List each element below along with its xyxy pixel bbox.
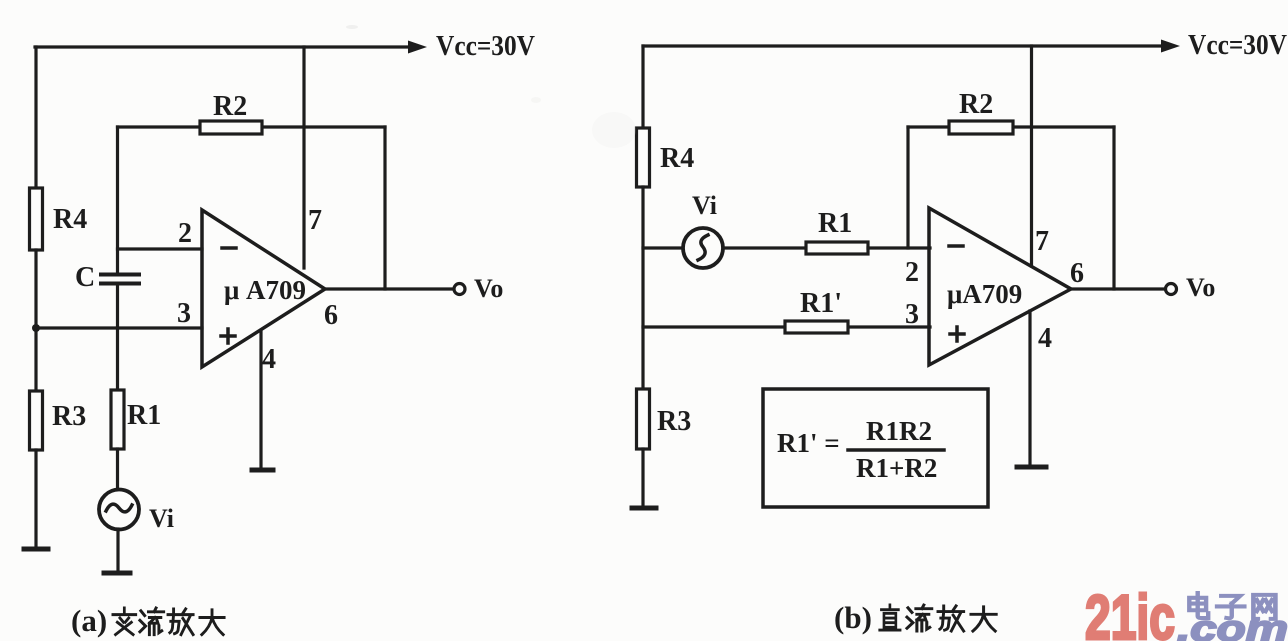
wire feedback right vertical (a) xyxy=(383,127,386,289)
source Vi circle (b) xyxy=(683,228,723,268)
op-amp A2 inverting marker (b) xyxy=(949,244,963,248)
svg-text:Vi: Vi xyxy=(149,504,174,533)
caption (a) chinese 交流放大 xyxy=(113,608,224,635)
wire R1 to source Vi (a) xyxy=(116,449,119,490)
node output terminal Vo (b) xyxy=(1166,284,1177,295)
wire R3 to ground (a) xyxy=(34,450,37,548)
wire Vcc to pin7 vertical (b) xyxy=(1030,46,1033,266)
op-amp A1 triangle (a) xyxy=(202,210,325,367)
op-amp A2 triangle (b) xyxy=(929,208,1071,365)
wire feedback horizontal R2 (a) xyxy=(118,125,386,128)
node junction R4-R3-pin3 (a) xyxy=(32,324,40,332)
svg-text:4: 4 xyxy=(262,344,276,375)
svg-text:(b): (b) xyxy=(834,600,872,635)
ground pin4 (a) xyxy=(252,468,273,473)
svg-text:7: 7 xyxy=(308,205,322,236)
wire R3 to ground (b) xyxy=(641,449,644,507)
formula box (b) xyxy=(763,389,988,507)
char zhi xyxy=(880,605,900,630)
svg-text:R4: R4 xyxy=(660,143,694,174)
wire feedback right vertical (b) xyxy=(1112,127,1115,289)
ground R3 (b) xyxy=(632,506,656,511)
wire R1 to pin 2 (b) xyxy=(868,246,930,249)
char fang xyxy=(168,609,193,635)
source Vi circle (a) xyxy=(99,490,139,530)
source Vi squiggle (b) xyxy=(698,235,708,260)
wire feedback left vertical (b) xyxy=(906,127,909,248)
CIRCUIT A xyxy=(24,31,535,638)
char fang xyxy=(938,606,964,631)
wire pin 3 horizontal (b) xyxy=(643,325,930,328)
wire Vcc rail top (a) xyxy=(35,45,412,48)
CIRCUIT B xyxy=(632,30,1287,635)
wire left vertical top to R4 (b) xyxy=(641,46,644,130)
svg-text:R4: R4 xyxy=(53,204,87,235)
wire capacitor to pin3 wire (a) xyxy=(116,285,119,328)
faint scan smudges xyxy=(346,25,636,148)
wire pin 3 horizontal (a) xyxy=(36,326,202,329)
power arrow Vcc (a) xyxy=(408,41,427,54)
wire left vertical R4 to pin3 level (b) xyxy=(641,187,644,390)
svg-text:4: 4 xyxy=(1038,323,1052,354)
svg-text:R1: R1 xyxy=(127,400,161,431)
char liu xyxy=(140,608,164,635)
wire feedback left vertical to capacitor (a) xyxy=(116,127,119,273)
svg-text:3: 3 xyxy=(177,298,191,329)
wire Vcc to pin7 vertical (a) xyxy=(302,47,305,268)
svg-text:R1R2: R1R2 xyxy=(866,416,932,446)
node output terminal Vo (a) xyxy=(454,284,465,295)
resistor R3 (b) xyxy=(637,389,650,449)
resistor R4 (a) xyxy=(30,188,43,250)
svg-text:R3: R3 xyxy=(52,401,86,432)
svg-text:R1' =: R1' = xyxy=(777,428,840,458)
char jiao xyxy=(113,608,136,635)
op-amp A2 non-inverting marker (b) xyxy=(950,327,964,341)
svg-text:Vcc=30V: Vcc=30V xyxy=(436,31,535,62)
ground pin4 (b) xyxy=(1017,465,1046,470)
wire Vi to R1 (b) xyxy=(723,246,806,249)
wire pin 4 to ground (a) xyxy=(259,331,262,468)
op-amp A1 inverting marker (a) xyxy=(222,246,236,250)
ground Vi (a) xyxy=(104,571,130,576)
svg-text:R3: R3 xyxy=(657,406,691,437)
svg-text:6: 6 xyxy=(1070,258,1084,289)
resistor R2 (b) xyxy=(949,121,1013,134)
wire pin 2 input (a) xyxy=(118,247,203,250)
wire output (b) xyxy=(1071,287,1165,290)
char da xyxy=(200,610,224,635)
wire pin3 junction down to R1 (a) xyxy=(116,328,119,391)
svg-text:R1: R1 xyxy=(818,208,852,239)
svg-text:R2: R2 xyxy=(213,91,247,122)
svg-text:R1': R1' xyxy=(800,288,842,319)
svg-text:Vo: Vo xyxy=(474,274,503,303)
svg-text:7: 7 xyxy=(1035,226,1049,257)
resistor R4 (b) xyxy=(637,128,650,187)
wire Vi to ground (a) xyxy=(116,529,119,572)
wire pin 4 to ground (b) xyxy=(1028,311,1031,465)
svg-text:3: 3 xyxy=(905,299,919,330)
wire output (a) xyxy=(325,287,453,290)
svg-text:Vcc=30V: Vcc=30V xyxy=(1188,30,1287,61)
resistor R1 (a) xyxy=(111,390,124,449)
svg-text:Vi: Vi xyxy=(692,191,717,220)
wire left vertical R4 to R3 (a) xyxy=(34,250,37,392)
svg-text:C: C xyxy=(75,262,95,293)
wire feedback horizontal R2 (b) xyxy=(908,125,1114,128)
svg-text:Vo: Vo xyxy=(1186,273,1215,302)
char liu xyxy=(907,605,932,631)
capacitor C (a) xyxy=(101,275,139,284)
ground R3 (a) xyxy=(24,547,48,552)
source Vi sine (a) xyxy=(106,504,132,512)
svg-text:.com: .com xyxy=(1177,608,1288,641)
resistor R1prime (b) xyxy=(785,321,848,333)
svg-text:R1+R2: R1+R2 xyxy=(856,453,937,483)
caption (b) chinese 直流放大 xyxy=(880,605,996,631)
watermark dian zi wang xyxy=(1189,593,1275,619)
svg-text:21ic: 21ic xyxy=(1085,583,1175,641)
formula fraction bar xyxy=(848,448,944,452)
svg-text:2: 2 xyxy=(905,257,919,288)
svg-text:2: 2 xyxy=(178,218,192,249)
char da xyxy=(971,607,996,631)
resistor R1 (b) xyxy=(806,242,868,254)
resistor R3 (a) xyxy=(30,391,43,450)
op-amp A1 non-inverting marker (a) xyxy=(221,329,235,343)
wire Vcc rail top (b) xyxy=(643,44,1164,47)
resistor R2 (a) xyxy=(200,121,262,134)
svg-text:(a): (a) xyxy=(71,603,107,638)
wire to source Vi (b) xyxy=(643,246,684,249)
svg-text:6: 6 xyxy=(324,300,338,331)
svg-text:R2: R2 xyxy=(959,89,993,120)
svg-text:μA709: μA709 xyxy=(947,279,1022,309)
power arrow Vcc (b) xyxy=(1161,40,1180,53)
wire left vertical top to R4 (a) xyxy=(34,47,37,190)
svg-text:μ A709: μ A709 xyxy=(224,275,306,305)
